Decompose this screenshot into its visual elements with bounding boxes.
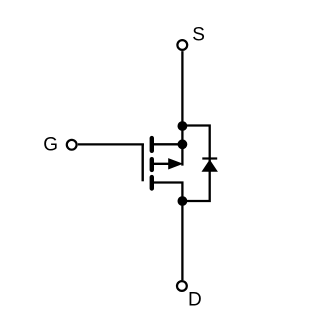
mosfet Q1 channel bar middle (body) xyxy=(150,159,154,170)
wire drain vertical xyxy=(181,201,183,280)
wire source to channel row 1 xyxy=(152,143,183,145)
wire diode branch xyxy=(182,126,209,202)
node junction dot 3 (drain/diode tap) xyxy=(178,196,188,206)
terminal D xyxy=(177,281,187,291)
mosfet Q1 body arrow (points right, p-channel) xyxy=(168,158,183,169)
wire source vertical xyxy=(181,51,183,166)
mosfet Q1 gate plate xyxy=(141,144,143,182)
svg-text:S: S xyxy=(192,25,205,46)
diode D1 triangle xyxy=(202,160,218,172)
diode D1 cathode bar xyxy=(202,157,217,159)
terminal G xyxy=(67,140,77,150)
mosfet Q1 channel bar bottom (drain) xyxy=(150,177,154,188)
svg-text:G: G xyxy=(43,134,58,155)
svg-text:D: D xyxy=(188,290,202,311)
mosfet Q1 channel bar top (source) xyxy=(150,138,154,151)
terminal S xyxy=(177,40,187,50)
node junction dot 1 (source/diode tap) xyxy=(178,121,188,131)
wire gate horizontal xyxy=(78,143,144,145)
wire drain row 3 xyxy=(152,183,183,202)
wire body row 2 xyxy=(152,163,171,165)
node junction dot 2 (source/channel tap) xyxy=(178,139,188,149)
